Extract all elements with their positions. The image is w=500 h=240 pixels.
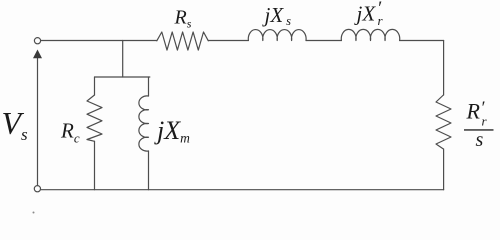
stray dot bottom left [33, 212, 35, 214]
svg-text:jXm: jXm [154, 116, 190, 146]
svg-text:jX: jX [354, 2, 377, 26]
wire right vertical top [443, 41, 445, 96]
inductor jXs [248, 30, 306, 41]
svg-text:jXs: jXs [262, 3, 292, 28]
resistor Rr'/s [436, 95, 451, 149]
wire Rs to jXs [208, 40, 248, 42]
wire Rc branch bottom [94, 141, 96, 189]
svg-text:Rs: Rs [174, 7, 192, 31]
wire Rc branch top [94, 77, 96, 95]
resistor Rs [157, 32, 209, 50]
inductor jXm [139, 96, 149, 151]
svg-text:Rc: Rc [60, 119, 80, 146]
svg-text:s: s [476, 129, 484, 151]
arrow Vs shaft [37, 56, 39, 186]
wire jXm branch bottom [148, 151, 150, 190]
terminal top-left [34, 38, 40, 44]
wire jXs to jXr' [306, 40, 341, 42]
wire top from terminal to Rs [41, 40, 157, 42]
svg-text:R: R [466, 99, 481, 124]
resistor Rc [87, 95, 102, 141]
wire jXr' to right corner [400, 40, 444, 42]
fraction bar [464, 129, 494, 130]
wire shunt junction vertical [122, 41, 124, 78]
wire shunt top bar [95, 76, 150, 78]
wire jXm branch top [148, 77, 150, 96]
inductor jXr' [341, 29, 399, 40]
wire right vertical bottom [443, 149, 445, 190]
svg-text:r: r [378, 13, 384, 28]
wire bottom [41, 189, 444, 191]
arrow Vs head [33, 50, 42, 59]
svg-text:Vs: Vs [2, 105, 29, 144]
terminal bottom-left [34, 186, 40, 192]
svg-text:r: r [482, 114, 488, 129]
